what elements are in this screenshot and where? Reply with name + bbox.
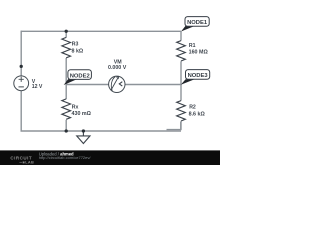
- svg-text:R3: R3: [72, 42, 79, 48]
- svg-text:8.6 kΩ: 8.6 kΩ: [189, 112, 206, 118]
- wire R2 bottom lead: [180, 121, 182, 130]
- junction dot above source: [20, 65, 23, 68]
- wire R1 bottom to node3: [180, 61, 182, 84]
- resistor R2: [177, 101, 186, 121]
- svg-text:Rx: Rx: [72, 105, 79, 111]
- svg-text:R2: R2: [189, 104, 196, 110]
- wire voltmeter to node3: [125, 84, 181, 86]
- node NODE3: [181, 70, 210, 85]
- wire left rail lower: [20, 90, 22, 131]
- svg-text:8 kΩ: 8 kΩ: [72, 49, 84, 55]
- wire node2 to Rx: [65, 85, 67, 100]
- voltage source V: [14, 76, 29, 91]
- wire node1 to R1: [180, 31, 182, 40]
- junction dot Rx bottom: [65, 129, 68, 132]
- node NODE1: [181, 17, 209, 32]
- wire node3 to R2: [180, 85, 182, 101]
- wire bottom jog near R2: [167, 122, 181, 130]
- resistor Rx: [62, 99, 71, 119]
- svg-text:160 MΩ: 160 MΩ: [189, 50, 209, 56]
- junction dot R3 top: [65, 30, 68, 33]
- node NODE2: [64, 70, 92, 85]
- wire R3 top lead: [65, 31, 67, 37]
- wire R3 bottom to node2: [65, 58, 67, 85]
- watermark bar: [0, 150, 220, 165]
- wire left rail upper: [20, 31, 22, 77]
- svg-text:R1: R1: [189, 43, 196, 49]
- resistor R1: [177, 41, 186, 61]
- junction dot ground: [82, 129, 85, 132]
- ground: [77, 131, 90, 144]
- svg-text:∼■LAB: ∼■LAB: [19, 159, 34, 164]
- svg-text:NODE1: NODE1: [187, 20, 208, 26]
- voltmeter VM: [109, 76, 125, 92]
- wire bottom rail: [21, 130, 182, 132]
- wire node2 to voltmeter: [66, 84, 109, 86]
- svg-text:NODE2: NODE2: [70, 73, 90, 79]
- resistor R3: [62, 37, 71, 57]
- svg-text:430 mΩ: 430 mΩ: [72, 111, 92, 117]
- svg-text:12 V: 12 V: [32, 84, 43, 90]
- svg-text:NODE3: NODE3: [188, 73, 209, 79]
- svg-text:0.000 V: 0.000 V: [108, 65, 127, 71]
- svg-text:http://circuitlab.com/ce772ev/: http://circuitlab.com/ce772ev/: [39, 155, 92, 160]
- wire Rx bottom lead: [65, 120, 67, 131]
- wire top rail: [21, 30, 181, 32]
